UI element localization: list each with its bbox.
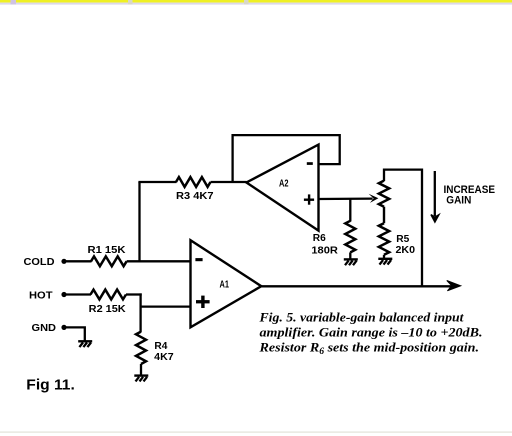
top yellow header bar	[0, 0, 512, 5]
caption figure text	[258, 309, 482, 355]
wire R6 top lead from A2 + line	[349, 199, 351, 222]
svg-text:HOT: HOT	[29, 289, 53, 301]
ground symbol below R5	[378, 259, 392, 265]
output arrowhead	[447, 281, 461, 291]
svg-text:4K7: 4K7	[154, 351, 174, 363]
potentiometer R5 upper section	[379, 181, 389, 207]
svg-text:COLD: COLD	[24, 256, 55, 268]
wire R6 bottom lead	[349, 252, 351, 258]
node COLD terminal dot	[61, 259, 66, 264]
wire HOT terminal to R2	[64, 293, 91, 295]
resistor R6	[345, 221, 355, 253]
svg-text:2K0: 2K0	[396, 244, 416, 256]
bottom faint divider line	[0, 431, 512, 432]
wire A2 non-inverting input to R5 wiper	[319, 197, 373, 200]
wire branch to A1 non-inverting input	[140, 305, 191, 307]
wire GND terminal to ground	[64, 327, 85, 340]
svg-text:GAIN: GAIN	[446, 195, 471, 207]
op-amp A2	[246, 145, 318, 231]
wire R1 to A1 inverting input, through node at x=139.5	[127, 260, 191, 262]
svg-text:A2: A2	[279, 178, 289, 189]
svg-text:R3 4K7: R3 4K7	[176, 190, 214, 202]
wire R5 top lead	[384, 170, 422, 288]
pin A1 non-inverting (+)	[196, 296, 210, 308]
svg-text:R2 15K: R2 15K	[89, 303, 126, 315]
node HOT terminal dot	[61, 292, 66, 297]
svg-text:R1 15K: R1 15K	[88, 244, 126, 256]
wire COLD terminal to R1	[64, 260, 92, 262]
resistor R2	[91, 290, 127, 300]
wiper arrowhead into R5	[369, 194, 379, 203]
potentiometer R5 middle section	[383, 207, 385, 224]
wire R3 to A2 output apex	[211, 181, 247, 183]
svg-text:Fig 11.: Fig 11.	[26, 378, 75, 394]
pin A1 inverting (-)	[195, 258, 202, 261]
resistor R4	[136, 332, 146, 364]
wire junction at COLD line up to R3	[138, 182, 140, 262]
pin A2 non-inverting (+)	[304, 194, 314, 204]
node GND terminal dot	[61, 325, 66, 330]
wire A2 feedback loop (output to inverting input)	[233, 135, 340, 181]
svg-text:R6: R6	[313, 232, 326, 244]
ground symbol below R4	[134, 376, 148, 382]
svg-text:180R: 180R	[311, 245, 338, 257]
resistor R3	[176, 177, 211, 187]
wire R5 bottom lead	[383, 255, 385, 258]
svg-text:Resistor R6 sets the mid-posit: Resistor R6 sets the mid-position gain.	[258, 339, 479, 356]
wire R3 left lead	[138, 181, 176, 183]
wire HOT node down to R4	[139, 293, 141, 332]
svg-text:GND: GND	[32, 322, 57, 334]
svg-text:A1: A1	[220, 279, 230, 290]
wire R4 bottom lead	[140, 364, 142, 375]
ground symbol at GND input	[78, 341, 92, 347]
wire A1 output line	[261, 285, 454, 287]
svg-text:Fig. 5. variable-gain balanced: Fig. 5. variable-gain balanced input	[258, 309, 463, 324]
wire R2 to corner above R4	[126, 293, 142, 295]
op-amp A1	[191, 240, 262, 327]
resistor R1	[91, 256, 127, 266]
pin A2 inverting (-)	[307, 162, 313, 165]
potentiometer R5 lower section	[379, 223, 389, 255]
svg-text:amplifier. Gain range is –10 t: amplifier. Gain range is –10 to +20dB.	[260, 324, 483, 339]
ground symbol below R6	[344, 259, 358, 265]
annotation arrow INCREASE GAIN	[434, 171, 436, 216]
